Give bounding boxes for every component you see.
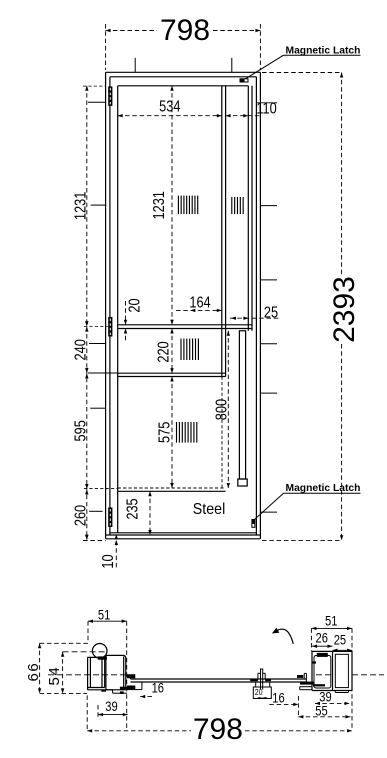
svg-text:39: 39 [319,689,331,704]
svg-text:26: 26 [315,630,327,645]
svg-text:55: 55 [315,703,327,718]
svg-text:20: 20 [126,298,144,312]
svg-text:235: 235 [124,498,142,519]
svg-text:39: 39 [105,699,117,714]
svg-text:800: 800 [213,399,231,420]
svg-text:66: 66 [25,662,42,682]
svg-text:Steel: Steel [193,502,225,519]
svg-text:Magnetic Latch: Magnetic Latch [286,483,361,494]
svg-text:240: 240 [72,339,90,360]
svg-text:20: 20 [255,687,263,697]
svg-text:2393: 2393 [328,276,361,343]
svg-text:798: 798 [193,713,243,746]
svg-text:1231: 1231 [72,192,90,220]
svg-text:110: 110 [256,100,276,118]
svg-text:595: 595 [72,420,90,441]
svg-text:16: 16 [152,680,164,695]
svg-text:260: 260 [72,505,90,526]
svg-text:51: 51 [325,613,337,628]
svg-text:54: 54 [46,666,63,686]
svg-text:220: 220 [155,341,173,362]
svg-text:575: 575 [156,422,174,443]
svg-text:25: 25 [264,304,278,322]
svg-text:1231: 1231 [151,191,169,219]
svg-text:16: 16 [272,690,284,705]
svg-text:25: 25 [334,632,346,647]
svg-text:10: 10 [100,554,118,568]
svg-text:164: 164 [189,294,210,312]
svg-text:51: 51 [98,607,110,622]
svg-text:798: 798 [160,14,210,47]
svg-text:534: 534 [159,98,180,116]
svg-text:Magnetic Latch: Magnetic Latch [286,45,361,56]
